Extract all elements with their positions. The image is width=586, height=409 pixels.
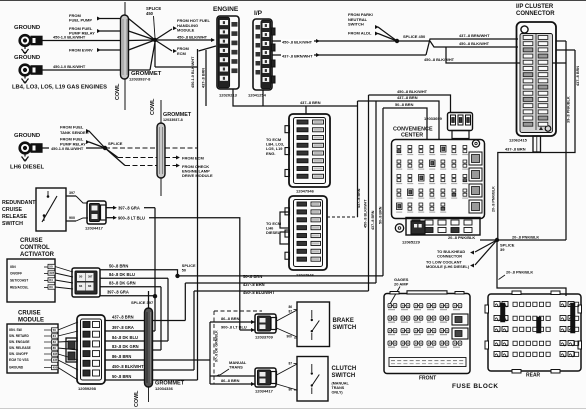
svg-text:COWL: COWL: [134, 390, 140, 407]
svg-text:COWL: COWL: [150, 98, 156, 115]
svg-text:397: 397: [49, 271, 54, 275]
svg-text:450: 450: [146, 11, 154, 16]
svg-text:SPLICE: SPLICE: [108, 141, 123, 146]
svg-text:LB4, LO3, LO5, L19 GAS ENGINES: LB4, LO3, LO5, L19 GAS ENGINES: [12, 85, 107, 91]
svg-text:FRONT: FRONT: [419, 376, 436, 382]
svg-text:437-.8 BRN: 437-.8 BRN: [371, 210, 375, 230]
svg-text:FUEL PUMP: FUEL PUMP: [69, 18, 92, 23]
svg-text:450-1.0 BLK/WHT: 450-1.0 BLK/WHT: [53, 64, 86, 69]
svg-text:DRIVE MODULE: DRIVE MODULE: [182, 173, 213, 178]
svg-text:12059298: 12059298: [78, 386, 97, 391]
svg-text:MODULE (LH6 DIESEL): MODULE (LH6 DIESEL): [426, 264, 470, 269]
svg-text:397-.8 GRA: 397-.8 GRA: [107, 290, 129, 295]
svg-text:450-.8 BLK/WHT: 450-.8 BLK/WHT: [397, 89, 428, 94]
svg-text:450-.8 BLU/WHT: 450-.8 BLU/WHT: [243, 290, 275, 295]
svg-text:12034417: 12034417: [85, 226, 104, 231]
svg-text:GROUND: GROUND: [9, 366, 24, 370]
svg-text:50-.8 BRN: 50-.8 BRN: [112, 374, 131, 379]
svg-text:83: 83: [88, 284, 92, 288]
svg-text:437: 437: [53, 358, 58, 362]
svg-text:20-.8 PNK/BLK: 20-.8 PNK/BLK: [512, 234, 539, 239]
svg-text:ENG.: ENG.: [266, 151, 276, 156]
svg-text:900-.8 LT BLU: 900-.8 LT BLU: [118, 216, 145, 221]
svg-text:83-.8 DK GRN: 83-.8 DK GRN: [112, 344, 139, 349]
svg-text:12020213: 12020213: [219, 93, 238, 98]
svg-text:50: 50: [79, 275, 83, 279]
svg-text:437-.8 BRN/WHT: 437-.8 BRN/WHT: [459, 33, 490, 38]
svg-text:84-.8 DK BLU: 84-.8 DK BLU: [109, 272, 135, 277]
svg-text:437-.8 BRN: 437-.8 BRN: [576, 66, 580, 86]
svg-text:IGN: IGN: [10, 265, 16, 269]
svg-text:20 AMP: 20 AMP: [394, 282, 409, 287]
svg-text:ENGINE: ENGINE: [213, 6, 239, 13]
svg-text:SWITCH: SWITCH: [2, 221, 23, 227]
svg-text:SET/COAST: SET/COAST: [10, 279, 28, 283]
svg-text:CONNECTOR: CONNECTOR: [437, 254, 462, 259]
svg-text:86-.8 BRN: 86-.8 BRN: [112, 354, 131, 359]
svg-text:86-.8 BRN: 86-.8 BRN: [221, 316, 240, 321]
svg-text:450-1.0 BLU/WHT: 450-1.0 BLU/WHT: [51, 146, 84, 151]
svg-text:86: 86: [53, 346, 57, 350]
svg-text:397: 397: [69, 191, 75, 195]
svg-text:12047946: 12047946: [296, 189, 315, 194]
svg-text:12062415: 12062415: [509, 138, 528, 143]
svg-text:TRANS: TRANS: [229, 365, 243, 370]
svg-text:SW. RELEASE: SW. RELEASE: [9, 346, 31, 350]
svg-text:450-.8 BLK/WHT: 450-.8 BLK/WHT: [112, 364, 144, 369]
svg-text:FUSE BLOCK: FUSE BLOCK: [452, 383, 499, 390]
svg-text:CRUISE: CRUISE: [2, 207, 22, 213]
svg-text:87: 87: [289, 310, 293, 314]
svg-text:437-.8 BRN: 437-.8 BRN: [300, 100, 321, 105]
svg-text:87: 87: [289, 362, 293, 366]
svg-text:SPLICE: SPLICE: [182, 264, 196, 268]
svg-text:ECM: ECM: [177, 51, 187, 56]
svg-text:ON/OFF: ON/OFF: [10, 272, 22, 276]
svg-text:12033937-8: 12033937-8: [129, 77, 151, 82]
svg-text:450-1.0 BLK/WHT: 450-1.0 BLK/WHT: [191, 56, 195, 88]
svg-text:20-.8 PNK/BLK: 20-.8 PNK/BLK: [506, 270, 533, 275]
svg-text:437-.8 BRN: 437-.8 BRN: [505, 147, 526, 152]
svg-text:397: 397: [88, 275, 93, 279]
svg-text:FROM EVRV: FROM EVRV: [69, 48, 93, 53]
svg-text:SPLICE 397: SPLICE 397: [131, 300, 154, 305]
svg-text:450-.8 BLK/WHT: 450-.8 BLK/WHT: [424, 57, 455, 62]
svg-text:20-.8 PNK/BLK: 20-.8 PNK/BLK: [492, 186, 496, 212]
svg-text:CONVENIENCE: CONVENIENCE: [393, 127, 433, 133]
svg-text:CONTROL: CONTROL: [20, 245, 50, 251]
svg-text:SWITCH: SWITCH: [333, 325, 357, 331]
svg-text:SW. ENGAGE: SW. ENGAGE: [9, 340, 30, 344]
svg-text:12047946: 12047946: [296, 273, 315, 278]
svg-text:437-.8 BRN/WHT: 437-.8 BRN/WHT: [282, 53, 313, 58]
svg-text:SWITCH: SWITCH: [348, 22, 364, 27]
svg-text:450-1.0 BLK/WHT: 450-1.0 BLK/WHT: [53, 35, 86, 40]
svg-text:83: 83: [49, 285, 53, 289]
svg-text:ACTIVATOR: ACTIVATOR: [20, 252, 55, 258]
svg-text:12033709: 12033709: [255, 335, 274, 340]
svg-text:CONNECTOR: CONNECTOR: [516, 11, 555, 17]
svg-text:50: 50: [53, 328, 57, 332]
svg-text:FROM ECM: FROM ECM: [182, 155, 204, 160]
svg-text:(MANUAL: (MANUAL: [332, 382, 350, 386]
svg-text:20-.8 PNK/BLK: 20-.8 PNK/BLK: [448, 235, 475, 240]
svg-text:LH6 DIESEL: LH6 DIESEL: [10, 165, 44, 171]
svg-text:900-.8 LT BLU: 900-.8 LT BLU: [221, 324, 247, 329]
svg-text:39-.8 PNK/BLK: 39-.8 PNK/BLK: [567, 96, 571, 123]
svg-text:97-.8 DK GRN/BLK: 97-.8 DK GRN/BLK: [215, 330, 219, 362]
svg-text:SWITCH: SWITCH: [332, 373, 356, 379]
svg-text:MODULE: MODULE: [18, 318, 44, 324]
svg-text:437-.8 BRN: 437-.8 BRN: [112, 315, 134, 320]
svg-text:CLUTCH: CLUTCH: [332, 366, 357, 372]
svg-text:12041254: 12041254: [248, 93, 267, 98]
svg-text:SW. ON/OFF: SW. ON/OFF: [9, 352, 28, 356]
svg-text:50: 50: [182, 269, 186, 273]
svg-text:84: 84: [79, 284, 83, 288]
svg-text:397-.8 GRA: 397-.8 GRA: [112, 325, 134, 330]
svg-text:39: 39: [500, 247, 505, 252]
svg-text:450-.8 BLK/WHT: 450-.8 BLK/WHT: [364, 199, 368, 228]
svg-text:84: 84: [49, 278, 53, 282]
svg-text:RELEASE: RELEASE: [2, 214, 27, 220]
svg-text:86: 86: [289, 388, 293, 392]
svg-text:I/P: I/P: [254, 10, 263, 17]
svg-text:86: 86: [289, 305, 293, 309]
svg-text:437-.8 BRN: 437-.8 BRN: [357, 188, 361, 208]
svg-text:RES/ACCEL: RES/ACCEL: [10, 286, 28, 290]
svg-text:900: 900: [287, 335, 293, 339]
svg-text:50-.8 BRN: 50-.8 BRN: [379, 206, 383, 224]
svg-text:50-.8 BRN: 50-.8 BRN: [109, 264, 128, 269]
svg-text:12033937-8: 12033937-8: [163, 118, 183, 122]
svg-text:12034417: 12034417: [255, 389, 274, 394]
svg-text:397-.8 GRA: 397-.8 GRA: [118, 206, 140, 211]
svg-text:TRANS: TRANS: [332, 386, 345, 390]
svg-text:83: 83: [53, 340, 57, 344]
svg-text:83-.8 DK GRN: 83-.8 DK GRN: [109, 281, 136, 286]
svg-text:REAR: REAR: [526, 373, 541, 379]
svg-text:450: 450: [53, 366, 58, 370]
svg-text:I/P CLUSTER: I/P CLUSTER: [516, 4, 554, 10]
svg-text:12033699: 12033699: [424, 116, 443, 121]
svg-text:450-.8 BLK/WHT: 450-.8 BLK/WHT: [177, 35, 208, 40]
svg-text:CRUISE: CRUISE: [20, 238, 43, 244]
svg-text:SPLICE 450: SPLICE 450: [403, 34, 426, 39]
svg-text:TANK SENDER: TANK SENDER: [60, 130, 89, 135]
svg-text:CRUISE: CRUISE: [18, 311, 41, 317]
svg-text:50: 50: [49, 265, 53, 269]
svg-text:450-.8 BLK/WHT: 450-.8 BLK/WHT: [459, 41, 490, 46]
svg-text:86-.8 BRN: 86-.8 BRN: [221, 378, 240, 383]
svg-text:GROUND: GROUND: [14, 55, 40, 61]
svg-text:CENTER: CENTER: [401, 133, 423, 139]
svg-text:84: 84: [53, 334, 57, 338]
svg-text:12065229: 12065229: [402, 240, 421, 245]
svg-text:GROUND: GROUND: [14, 133, 40, 139]
svg-text:50-.8 BRN: 50-.8 BRN: [395, 102, 414, 107]
svg-text:GROUND: GROUND: [14, 25, 40, 31]
svg-text:50-.8 BRN: 50-.8 BRN: [243, 274, 262, 279]
svg-text:ONLY): ONLY): [332, 390, 344, 394]
svg-text:84-.8 DK BLU: 84-.8 DK BLU: [112, 335, 138, 340]
svg-text:437-.8 BRN: 437-.8 BRN: [202, 68, 206, 88]
svg-text:900: 900: [69, 216, 75, 220]
svg-text:IGN. SW.: IGN. SW.: [9, 328, 22, 332]
svg-text:BRAKE: BRAKE: [333, 318, 354, 324]
svg-text:437-.8 BRN: 437-.8 BRN: [397, 95, 418, 100]
svg-text:450-.8 BLK/WHT: 450-.8 BLK/WHT: [282, 39, 313, 44]
svg-text:DIESEL: DIESEL: [266, 230, 281, 235]
svg-text:12034336: 12034336: [155, 386, 174, 391]
svg-text:COWL: COWL: [115, 83, 121, 100]
svg-text:437-.8 BRN: 437-.8 BRN: [243, 282, 265, 287]
svg-text:MODULE: MODULE: [177, 28, 195, 33]
svg-text:REDUNDANT: REDUNDANT: [2, 200, 36, 206]
svg-text:SW. RETARD: SW. RETARD: [9, 334, 29, 338]
svg-text:ECM TO VSS: ECM TO VSS: [9, 358, 29, 362]
svg-text:397: 397: [53, 352, 58, 356]
svg-text:FROM ALDL: FROM ALDL: [348, 31, 372, 36]
